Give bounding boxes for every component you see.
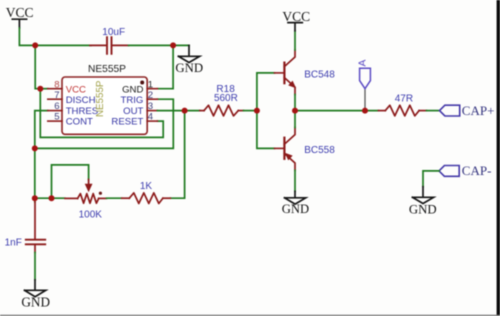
wire pin8 to junction bbox=[40, 88, 48, 90]
wire VCC junction down to pin8 bbox=[35, 45, 40, 88]
svg-text:CAP+: CAP+ bbox=[462, 103, 495, 118]
svg-text:8: 8 bbox=[54, 79, 59, 90]
wire VCC rail to cap and junction bbox=[19, 28, 91, 45]
wire wiper loop bbox=[52, 165, 89, 198]
wire BC558 emitter to output node bbox=[294, 111, 296, 128]
svg-text:100K: 100K bbox=[79, 209, 103, 220]
svg-text:GND: GND bbox=[409, 203, 437, 217]
power symbol VCC (top left) bbox=[6, 5, 34, 28]
svg-text:1: 1 bbox=[148, 79, 153, 90]
ground GND (below BC558) bbox=[282, 191, 309, 216]
wire pin6 THRES net bbox=[35, 111, 48, 199]
resistor R18 560R bbox=[200, 105, 244, 116]
capacitor 1nF bbox=[26, 198, 45, 252]
svg-text:OUT: OUT bbox=[123, 106, 143, 117]
screenshot border right bbox=[497, 0, 500, 316]
svg-text:RESET: RESET bbox=[111, 117, 143, 128]
wire OUT net to R18 bbox=[157, 110, 199, 112]
node junction probe A bbox=[362, 108, 368, 114]
svg-text:GND: GND bbox=[21, 295, 50, 310]
resistor 1K bbox=[122, 193, 171, 204]
node junction cap/GND bbox=[170, 42, 176, 48]
pin stubs left (8,7,6,5) bbox=[48, 89, 62, 121]
ground GND (bottom left) bbox=[21, 280, 50, 310]
probe A bbox=[357, 59, 370, 107]
screenshot border bottom bbox=[0, 315, 500, 316]
wire output node to CAP+ branch bbox=[295, 110, 379, 112]
power symbol VCC (middle) bbox=[282, 9, 310, 31]
wire pin1 GND net bbox=[157, 45, 173, 88]
svg-text:THRES: THRES bbox=[66, 106, 99, 117]
svg-text:47R: 47R bbox=[395, 94, 413, 105]
wire BC548 collector to VCC bbox=[294, 31, 296, 50]
svg-text:TRIG: TRIG bbox=[120, 95, 143, 106]
potentiometer 100K bbox=[65, 180, 107, 204]
svg-text:A: A bbox=[357, 59, 368, 66]
node junction VCC rail bbox=[32, 42, 38, 48]
svg-text:5: 5 bbox=[54, 112, 59, 123]
wire junction to GND symbol bbox=[173, 44, 189, 46]
svg-text:BC558: BC558 bbox=[304, 145, 335, 156]
wire base node to BC548 base bbox=[257, 73, 275, 111]
svg-text:GND: GND bbox=[282, 202, 309, 216]
svg-text:1K: 1K bbox=[140, 181, 153, 192]
wire RESET net (pin4 loop under IC to VCC) bbox=[40, 89, 163, 138]
svg-text:560R: 560R bbox=[214, 93, 238, 104]
svg-text:1nF: 1nF bbox=[5, 237, 22, 248]
capacitor C 10uF bbox=[90, 37, 129, 54]
svg-text:NE555P: NE555P bbox=[88, 64, 126, 75]
wire R18 to base node bbox=[244, 110, 257, 112]
wire 1nF to GND bbox=[34, 253, 36, 280]
svg-text:GND: GND bbox=[122, 85, 143, 96]
svg-text:2: 2 bbox=[148, 90, 153, 101]
node junction timing (pot left) bbox=[32, 195, 38, 201]
node junction bases bbox=[254, 108, 260, 114]
wire pot to 1K bbox=[107, 197, 122, 199]
op-amp U1 NE555P body bbox=[62, 64, 147, 135]
svg-text:BC548: BC548 bbox=[304, 69, 335, 80]
node junction wiper bbox=[49, 195, 55, 201]
wire base node to BC558 base bbox=[257, 111, 275, 149]
node junction pin8 VCC bbox=[37, 86, 43, 92]
svg-text:CONT: CONT bbox=[66, 117, 93, 128]
node junction OUT bbox=[182, 108, 188, 114]
svg-text:CAP-: CAP- bbox=[462, 163, 492, 178]
wire BC558 collector to GND bbox=[294, 170, 296, 191]
svg-text:6: 6 bbox=[54, 101, 59, 112]
svg-text:VCC: VCC bbox=[6, 5, 34, 20]
transistor Q2 BC558 (PNP) bbox=[275, 128, 296, 171]
pin stubs right (1,2,3,4) bbox=[147, 89, 157, 121]
wire timing node to pot bbox=[35, 197, 65, 199]
svg-text:7: 7 bbox=[54, 90, 59, 101]
wire pin2 TRIG net bbox=[35, 99, 174, 148]
svg-text:4: 4 bbox=[148, 112, 154, 123]
node junction TRIG/THRES bbox=[32, 145, 38, 151]
resistor 47R bbox=[379, 105, 427, 116]
ground GND (CAP-) bbox=[409, 187, 437, 217]
ground GND (top) bbox=[175, 45, 203, 74]
wire CAP- to GND bbox=[423, 171, 439, 187]
transistor Q1 BC548 (NPN) bbox=[275, 50, 296, 95]
connector tag CAP- bbox=[439, 163, 491, 178]
svg-text:10uF: 10uF bbox=[102, 27, 125, 38]
svg-text:DISCH: DISCH bbox=[66, 95, 96, 106]
svg-text:3: 3 bbox=[148, 101, 153, 112]
svg-text:NE555P: NE555P bbox=[95, 80, 106, 117]
wire cap to GND junction bbox=[129, 44, 174, 46]
connector tag CAP+ bbox=[440, 103, 495, 118]
wire OUT feedback to 1K bbox=[170, 111, 184, 199]
svg-text:GND: GND bbox=[175, 61, 203, 75]
wire 47R to CAP+ tag bbox=[427, 110, 440, 112]
wire BC548 emitter to output node bbox=[294, 95, 296, 111]
node junction emitters bbox=[292, 108, 298, 114]
svg-text:VCC: VCC bbox=[66, 85, 86, 96]
